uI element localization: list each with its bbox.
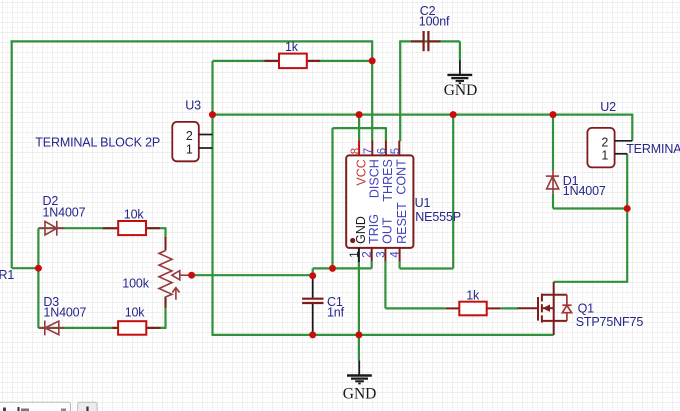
- svg-text:STP75NF75: STP75NF75: [576, 315, 644, 329]
- terminal block pin digits: [186, 129, 609, 163]
- wire D1 to U2 pin1 node: [553, 207, 627, 209]
- wire pot wiper to C1 node: [192, 274, 313, 276]
- U1 pin 1 stub (GND, black): [358, 248, 360, 262]
- node TRIG/THRES: [329, 265, 336, 272]
- U3 pin 2 stub: [199, 134, 213, 136]
- wire CONT/C2 riser x=400.2: [399, 40, 401, 141]
- wire 1k to gate: [500, 307, 518, 309]
- U3 pin 1 stub: [199, 147, 213, 149]
- wire C2 to GND stem upper: [459, 41, 461, 61]
- U1 pin 5 stub: [398, 141, 400, 156]
- transistor Q1 STP75NF75 N-MOSFET: [518, 282, 567, 335]
- svg-text:1k: 1k: [466, 288, 480, 302]
- svg-text:1N4007: 1N4007: [563, 184, 606, 198]
- node D1/U2 pin1: [624, 205, 631, 212]
- pin C2 right: [428, 40, 440, 42]
- svg-text:8: 8: [350, 148, 362, 154]
- wire U2 pin1 vertical through node to Q1 drain: [626, 154, 628, 282]
- pin R4 10k bottom right: [146, 327, 161, 329]
- svg-text:1N4007: 1N4007: [43, 206, 86, 220]
- U2 pin 1 stub: [615, 153, 628, 155]
- svg-text:NE555P: NE555P: [415, 210, 461, 224]
- diode D2 1N4007 pointing right: [39, 221, 64, 236]
- wire long vertical U3 feed x=212.5: [211, 61, 213, 335]
- svg-text:Q1: Q1: [578, 302, 595, 316]
- Q1 gate bar: [537, 297, 539, 321]
- wire D3 branch horizontal: [38, 327, 165, 329]
- svg-text:VCC: VCC: [354, 159, 368, 185]
- svg-text:2: 2: [362, 251, 374, 257]
- svg-text:10k: 10k: [125, 306, 146, 320]
- wire C2 horizontal: [400, 40, 460, 42]
- wire 1k top resistor line: [213, 60, 373, 62]
- resistor R4 10k bottom body: [118, 321, 146, 335]
- node RESET riser: [450, 111, 457, 118]
- wire D1 bottom: [552, 194, 554, 209]
- resistor R3 10k top body: [118, 221, 146, 235]
- wire OUT to 1k gate resistor: [385, 307, 445, 309]
- node pot wiper: [188, 272, 195, 279]
- wire THRES link vertical x=332.5: [331, 128, 333, 268]
- svg-text:1N4007: 1N4007: [43, 306, 86, 320]
- resistor R6 1k gate body: [459, 302, 486, 316]
- wire TRIG pin2 drop: [371, 261, 373, 268]
- Q1 arrow: [543, 305, 551, 312]
- svg-text:100k: 100k: [122, 277, 149, 291]
- sheet tab 1 (bottom-left UI): [0, 402, 71, 411]
- pin R3 10k top right: [146, 227, 161, 229]
- pin R3 10k top left: [103, 227, 119, 229]
- node U3/VCC rail: [209, 111, 216, 118]
- svg-text:R1: R1: [0, 268, 14, 282]
- U1 pin 3 stub: [384, 248, 386, 261]
- wire GND pin1 down to rail: [358, 262, 360, 361]
- node GND rail: [355, 331, 362, 338]
- svg-text:U2: U2: [600, 100, 616, 114]
- terminal block U2 body: [587, 128, 614, 167]
- node C1 bottom rail: [309, 331, 316, 338]
- Q1 body diode: [562, 295, 571, 321]
- wire left loop vertical: [11, 40, 13, 268]
- svg-text:THRES: THRES: [381, 159, 395, 201]
- pin R6 1k gate left: [446, 307, 460, 309]
- svg-text:2: 2: [601, 135, 608, 149]
- pin R2 1k right: [306, 60, 320, 62]
- U1 pin 6 stub: [385, 141, 387, 156]
- capacitor C1 1nf plates: [302, 299, 323, 303]
- svg-text:OUT: OUT: [381, 217, 395, 244]
- svg-text:U1: U1: [415, 196, 431, 210]
- sheet tab 2 (add sheet): [78, 402, 97, 411]
- svg-text:3: 3: [375, 251, 387, 257]
- wire THRES link horizontal y=128.1: [333, 127, 386, 129]
- pin R6 1k gate right: [486, 307, 500, 309]
- wire DISCH riser x=372.2: [371, 40, 373, 141]
- svg-text:2: 2: [186, 129, 193, 143]
- wire top rail from left loop to 1k/DISCH riser: [11, 40, 373, 42]
- diode D3 1N4007 pointing left: [39, 321, 65, 336]
- svg-text:1k: 1k: [285, 40, 299, 54]
- labels (navy): [0, 4, 680, 329]
- ground symbol GND (top, C2): [447, 61, 472, 84]
- svg-text:TERMINAL BLOCK 2P: TERMINAL BLOCK 2P: [626, 142, 680, 156]
- wire pin8 VCC drop: [358, 115, 360, 142]
- wire left loop to D2/D3 node: [12, 267, 39, 269]
- svg-text:TRIG: TRIG: [367, 214, 381, 244]
- Q1 spine: [553, 282, 555, 321]
- wire THRES pin6 drop: [385, 127, 387, 141]
- wire OUT pin3 down: [384, 261, 386, 308]
- potentiometer R5 100k zigzag: [159, 251, 192, 300]
- wire D1 top drop: [552, 115, 554, 171]
- svg-text:DISCH: DISCH: [367, 159, 381, 198]
- pot wiper triangle: [172, 271, 180, 280]
- resistor R2 1k top body: [279, 54, 307, 69]
- wire pot top connection: [164, 227, 166, 238]
- node 1k/DISCH: [369, 57, 376, 64]
- wire D2 branch horizontal: [38, 227, 165, 229]
- capacitor C2 100nf plates: [424, 31, 429, 51]
- U2 pin 2 stub: [615, 140, 633, 142]
- U1 pin 1 marker dot: [350, 238, 355, 243]
- U1 pin names (rotated): [354, 159, 409, 244]
- node pin8 VCC: [356, 111, 363, 118]
- svg-text:RESET: RESET: [395, 202, 409, 244]
- op-amp U1 NE555P body: [346, 155, 413, 248]
- svg-text:CONT: CONT: [394, 159, 408, 195]
- pin R2 1k left: [265, 60, 281, 62]
- pin R5 pot top: [165, 237, 167, 251]
- node C1 top: [309, 272, 316, 279]
- U1 pin 2 stub: [371, 248, 373, 261]
- wire RESET pin4 drop: [399, 261, 401, 269]
- Q1 source drop to rail: [553, 321, 555, 335]
- terminal block U3 body: [172, 122, 199, 161]
- svg-text:6: 6: [377, 148, 389, 154]
- pot adjust arrow: [175, 289, 177, 300]
- svg-text:10k: 10k: [124, 207, 145, 221]
- Q1 channel segments: [541, 294, 543, 302]
- pin R4 10k bottom left: [112, 327, 119, 329]
- svg-text:5: 5: [390, 148, 402, 154]
- node D2/D3 split: [35, 265, 42, 272]
- diode D1 1N4007 pointing up: [546, 171, 559, 194]
- svg-text:GND: GND: [444, 82, 478, 99]
- wire RESET horizontal: [400, 267, 454, 269]
- svg-text:GND: GND: [343, 385, 377, 402]
- wire TRIG horizontal: [313, 267, 372, 269]
- svg-text:7: 7: [363, 148, 375, 154]
- pot wiper lead: [180, 274, 192, 276]
- Q1 gate lead: [518, 307, 539, 309]
- svg-text:1nf: 1nf: [327, 305, 345, 319]
- wire D2/D3 node vertical: [37, 228, 39, 328]
- Q1 body lead: [543, 307, 554, 309]
- U1 pin 8 stub (VCC, red): [358, 141, 360, 156]
- wire Q1 drain horizontal: [554, 281, 629, 283]
- U1 pin 7 stub: [371, 141, 373, 156]
- capacitor C1 pins (black): [312, 276, 314, 335]
- pin C2 left: [411, 40, 423, 42]
- wire VCC rail y=114.6: [213, 113, 633, 115]
- svg-text:TERMINAL BLOCK 2P: TERMINAL BLOCK 2P: [35, 135, 160, 149]
- svg-text:4: 4: [390, 251, 402, 258]
- node D1 top: [550, 111, 557, 118]
- wire C1 node vertical: [312, 268, 314, 275]
- svg-text:1: 1: [349, 251, 361, 257]
- svg-text:1: 1: [186, 143, 193, 157]
- Q1 source lead: [542, 320, 567, 322]
- U1 pin 4 stub: [399, 248, 401, 261]
- wire pot bottom connection: [164, 297, 166, 329]
- svg-text:100nf: 100nf: [419, 15, 450, 29]
- wire RESET riser to VCC rail: [452, 115, 454, 269]
- dark red pin segments: [103, 41, 501, 328]
- ground symbol GND (bottom, pin1 rail): [347, 361, 372, 384]
- wire U2 pin2 drop: [631, 114, 633, 141]
- pin R5 pot bottom: [165, 297, 167, 308]
- svg-text:U3: U3: [185, 98, 201, 112]
- U1 pin numbers (rotated): [349, 148, 402, 258]
- Q1 drain lead: [542, 294, 567, 296]
- svg-text:1: 1: [601, 148, 608, 162]
- wire bottom ground rail: [212, 334, 554, 336]
